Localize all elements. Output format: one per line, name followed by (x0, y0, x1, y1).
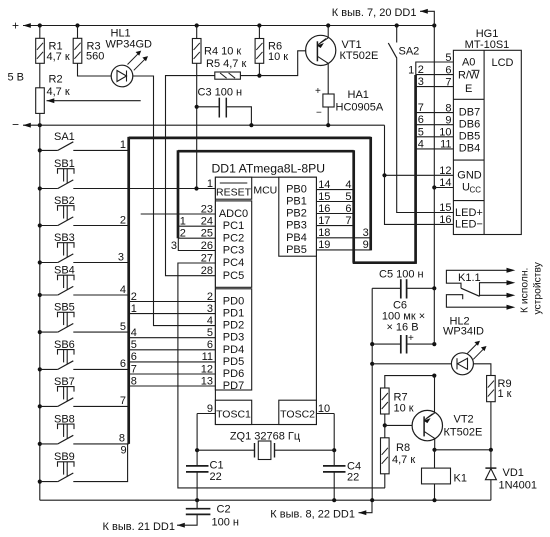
wire +5V to R6 (258, 26, 260, 39)
power rail minus (12, 118, 385, 132)
svg-text:SB1: SB1 (54, 158, 75, 170)
node R5 R6 (257, 74, 261, 78)
pin 23 (201, 203, 213, 215)
svg-text:2: 2 (418, 64, 424, 76)
svg-text:SA2: SA2 (399, 46, 420, 58)
IC DD1 PB box (279, 177, 317, 256)
bus keyboard horizontal (129, 137, 371, 140)
svg-text:1N4001: 1N4001 (499, 480, 538, 492)
IC DD1 PD box (215, 289, 251, 390)
LED HL1 (111, 51, 148, 87)
pushbutton SB3 (38, 232, 75, 265)
power rail +5V top (12, 19, 434, 33)
svg-text:4,7 к: 4,7 к (47, 86, 70, 98)
wire GND column mid (371, 344, 373, 364)
pin 1 RESET (207, 178, 213, 190)
svg-text:15: 15 (439, 202, 451, 214)
label PC2 (223, 232, 244, 244)
label PD4 (223, 344, 244, 356)
label DB6 (459, 118, 480, 130)
svg-text:ZQ1 32768 Гц: ZQ1 32768 Гц (230, 431, 301, 443)
pin 7 (445, 76, 451, 88)
label K1.1 (458, 272, 481, 284)
svg-text:PB1: PB1 (286, 196, 307, 208)
wire PB pin 19 to bus (316, 239, 370, 251)
pushbutton SB5 (38, 302, 75, 335)
wire crystal left (197, 449, 254, 451)
wire R8 top (384, 425, 386, 437)
wire +5V to R4 (196, 26, 198, 39)
label SA2 (399, 46, 420, 58)
label to actuator line2 (533, 261, 544, 314)
svg-text:+: + (315, 86, 321, 97)
label TOSC1 (216, 408, 251, 420)
wire Ucc down to C5 (433, 188, 435, 289)
wire R3 to HL1 (78, 63, 112, 76)
capacitor C2 (177, 500, 210, 527)
wire SB6 to bus (73, 358, 128, 370)
wire GND column upper (371, 288, 373, 344)
IC DD1 outline (215, 177, 316, 424)
svg-text:7: 7 (418, 102, 424, 114)
pushbutton SB7 (38, 376, 75, 409)
node HA1 minus rail (326, 123, 330, 127)
svg-text:22: 22 (210, 471, 222, 483)
pin 5 PD (207, 327, 213, 339)
pin 9 TOSC1 (197, 403, 215, 415)
node R7 Ucc (432, 374, 436, 378)
svg-text:+: + (408, 333, 414, 344)
label LEDminus (455, 219, 483, 231)
label LCD (491, 57, 513, 69)
svg-text:ADC0: ADC0 (219, 208, 248, 220)
wire bus to PD pin 2 (129, 291, 216, 303)
svg-text:SB7: SB7 (54, 376, 75, 388)
wire SB7 to bus (73, 395, 128, 407)
wire SB4 to bus (73, 284, 128, 296)
pin 28 (201, 265, 213, 277)
node C5 Ucc (432, 286, 436, 290)
crystal ZQ1 (255, 441, 275, 460)
svg-text:19: 19 (318, 239, 330, 251)
svg-text:18: 18 (318, 227, 330, 239)
svg-text:4,7 к: 4,7 к (392, 454, 415, 466)
svg-text:C1: C1 (210, 460, 224, 472)
node C4 bottom rail (332, 498, 336, 502)
svg-text:28: 28 (201, 265, 213, 277)
diode VD1 (485, 450, 496, 500)
wire bus to PD pin 6 (129, 351, 216, 363)
svg-text:SB2: SB2 (54, 195, 75, 207)
label R1 (47, 40, 70, 63)
label to pins 8,22 DD1 (270, 508, 355, 520)
svg-text:VD1: VD1 (503, 467, 524, 479)
label HG1 (465, 28, 510, 51)
svg-text:22: 22 (347, 471, 359, 483)
svg-text:PB4: PB4 (286, 232, 307, 244)
svg-text:+: + (12, 19, 19, 33)
pin 8 (445, 102, 451, 114)
display HG1 control box divider (453, 98, 484, 100)
resistor R6 (255, 39, 264, 64)
bus PC vertical (177, 150, 180, 238)
svg-text:2: 2 (131, 291, 137, 303)
pin 2 PD (207, 291, 213, 303)
svg-text:устройству: устройству (533, 261, 544, 314)
svg-text:24: 24 (201, 216, 213, 228)
svg-text:WP34ID: WP34ID (443, 326, 484, 338)
pin 26 (201, 240, 213, 252)
svg-text:MT-10S1: MT-10S1 (465, 39, 510, 51)
wire GND column lower (371, 364, 373, 500)
svg-text:2: 2 (207, 291, 213, 303)
relay contact K1.1 common (446, 268, 515, 288)
label PD2 (223, 320, 244, 332)
wire bus to PD pin 1 (129, 303, 216, 315)
wire pin 23 ADC0 (141, 213, 216, 215)
pin 27 (201, 252, 213, 264)
svg-text:К выв. 21 DD1: К выв. 21 DD1 (103, 521, 175, 533)
svg-text:6: 6 (207, 339, 213, 351)
label PC5 (223, 270, 244, 282)
wire Ucc to VT2 emitter (434, 376, 436, 412)
svg-text:SB9: SB9 (54, 451, 75, 463)
svg-text:3: 3 (171, 240, 177, 252)
label VT2 (444, 414, 483, 439)
node +5V R4 tap (195, 23, 199, 27)
node C6 left (370, 342, 374, 346)
display HG1 partition (483, 50, 485, 234)
svg-text:−: − (316, 108, 322, 119)
svg-text:K1: K1 (454, 473, 467, 485)
label C5 (379, 268, 424, 280)
wire LCD pin 9 (416, 114, 454, 126)
label DB5 (459, 131, 480, 143)
label to pin 21 DD1 (103, 521, 175, 533)
svg-text:HA1: HA1 (348, 89, 369, 101)
wire to pins 7,20 DD1 (420, 9, 434, 26)
wire TOSC1 to crystal (196, 414, 198, 451)
svg-text:R4 10 к: R4 10 к (204, 46, 241, 58)
svg-text:LCD: LCD (491, 57, 513, 69)
IC DD1 TOSC2 box (279, 400, 317, 424)
svg-text:R8: R8 (396, 442, 410, 454)
svg-text:PD1: PD1 (223, 308, 244, 320)
label PD1 (223, 308, 244, 320)
capacitor C4 (323, 450, 346, 500)
wire crystal right (275, 449, 335, 451)
bus keyboard vertical (127, 137, 130, 444)
label PB1 (286, 196, 307, 208)
label A0 (462, 57, 475, 69)
label R8 (392, 442, 415, 466)
svg-text:3: 3 (418, 76, 424, 88)
node C1 bottom rail (195, 498, 199, 502)
svg-text:9: 9 (363, 239, 369, 251)
svg-text:26: 26 (201, 240, 213, 252)
wire SB5 to bus (73, 321, 128, 333)
transistor VT2 (412, 410, 442, 440)
svg-text:КТ502Е: КТ502Е (444, 427, 483, 439)
pushbutton SB9 (38, 451, 75, 484)
capacitor C1 (186, 450, 209, 500)
resistor R9 (487, 376, 496, 402)
pin 24 (201, 216, 213, 228)
svg-text:2: 2 (180, 228, 186, 240)
LED HL2 (451, 341, 486, 375)
wire SB9 to bus (73, 444, 127, 482)
wire bus to PD pin 4 (129, 327, 216, 339)
svg-text:DB5: DB5 (459, 131, 480, 143)
wire PB pin 15 to bus (316, 191, 353, 203)
pin 16 (439, 214, 451, 226)
svg-text:4,7 к: 4,7 к (47, 51, 70, 63)
label C4 (347, 461, 361, 484)
wire bus to PD pin 7 (129, 363, 216, 375)
wire R2 to minus rail (39, 113, 41, 125)
label LED+ (455, 207, 483, 219)
label PC1 (223, 220, 244, 232)
pin 3 PD (207, 303, 213, 315)
switch SA2 (388, 26, 453, 213)
label PB2 (286, 208, 307, 220)
svg-text:5: 5 (445, 52, 451, 64)
svg-text:К выв. 7, 20 DD1: К выв. 7, 20 DD1 (332, 7, 417, 19)
svg-text:К выв. 8, 22 DD1: К выв. 8, 22 DD1 (270, 508, 355, 520)
svg-text:8: 8 (131, 375, 137, 387)
buzzer HA1 (315, 86, 334, 119)
label C6 (382, 299, 425, 333)
resistor R4 (192, 39, 201, 64)
wire bus to pin 25 (178, 228, 215, 240)
node minus rail R2 (38, 123, 42, 127)
node crystal left (195, 448, 199, 452)
wire K1 to ground (434, 484, 436, 500)
pushbutton SB6 (38, 339, 75, 372)
label HA1 (336, 89, 384, 114)
label RW (458, 70, 480, 82)
node +5V VT1 emitter tap (326, 23, 330, 27)
svg-text:25: 25 (201, 228, 213, 240)
node R7 R8 base (383, 423, 387, 427)
svg-text:DB7: DB7 (459, 106, 480, 118)
svg-text:7: 7 (131, 363, 137, 375)
svg-text:8: 8 (445, 102, 451, 114)
node GND branch (382, 173, 386, 177)
svg-text:4: 4 (207, 315, 213, 327)
svg-text:15: 15 (318, 191, 330, 203)
svg-text:5: 5 (120, 321, 126, 333)
svg-text:6: 6 (120, 358, 126, 370)
wire SB3 to bus (73, 251, 128, 263)
wire collector to R9 node (435, 449, 491, 451)
pin 10 (439, 127, 451, 139)
label DB4 (459, 143, 480, 155)
label C2 (212, 504, 239, 529)
svg-text:VT2: VT2 (454, 414, 474, 426)
node +5V R6 tap (257, 23, 261, 27)
relay contact K1.1 blade (461, 288, 480, 296)
svg-text:C2: C2 (217, 504, 231, 516)
node +5V Ucc tap (432, 23, 436, 27)
relay contact K1.1 NC (446, 295, 515, 310)
wire bottom ground rail (40, 499, 491, 501)
svg-text:R5 4,7 к: R5 4,7 к (206, 58, 246, 70)
svg-text:23: 23 (201, 203, 213, 215)
label DB7 (459, 106, 480, 118)
label VD1 (499, 467, 538, 492)
wire collector to K1 (434, 450, 436, 468)
resistor R8 (381, 438, 390, 474)
svg-text:PC1: PC1 (223, 220, 244, 232)
wire bus to PD pin 8 (129, 375, 216, 387)
bus PB left vertical (352, 150, 355, 263)
wire LCD pin 5 (408, 62, 453, 76)
wire LCD pin 7 (416, 76, 454, 88)
svg-text:12: 12 (201, 363, 213, 375)
wire LCD pin 8 (416, 102, 454, 114)
svg-text:SB5: SB5 (54, 302, 75, 314)
pushbutton SB2 (38, 195, 75, 228)
node crystal right (332, 448, 336, 452)
node R4 C3 (195, 105, 199, 109)
pin 10 TOSC2 (316, 403, 334, 415)
svg-text:13: 13 (201, 375, 213, 387)
svg-text:WP34GD: WP34GD (106, 38, 153, 50)
svg-text:R/W: R/W (458, 70, 480, 82)
wire bus to pin 26 (171, 238, 216, 252)
capacitor C5 (372, 279, 434, 298)
bus PB right vertical (369, 137, 372, 251)
wire keyboard common bus (39, 125, 41, 500)
svg-text:5: 5 (131, 339, 137, 351)
wire node to VT1 base (259, 51, 306, 76)
label C1 (210, 460, 224, 483)
svg-text:3: 3 (363, 227, 369, 239)
wire base node to VT2 (385, 424, 412, 426)
pin 4 PD (207, 315, 213, 327)
label ADC0 (219, 208, 248, 220)
bus LCD vertical (414, 75, 417, 264)
label PC3 (223, 245, 244, 257)
wire LCD pin 11 (416, 138, 454, 150)
label PB0 (286, 184, 307, 196)
svg-text:5: 5 (207, 327, 213, 339)
wire R9 to collector node (490, 402, 492, 450)
pin 13 PD (201, 375, 213, 387)
svg-text:10 к: 10 к (394, 403, 414, 415)
svg-text:1: 1 (207, 178, 213, 190)
wire SB8 to bus (73, 433, 128, 445)
pin 5 A0 (445, 52, 451, 64)
svg-text:SB4: SB4 (54, 265, 75, 277)
label TOSC2 (280, 408, 315, 420)
wire Ucc vertical (433, 26, 435, 188)
label to actuator line1 (520, 268, 531, 313)
svg-text:14: 14 (318, 179, 330, 191)
wire PB pin 14 to bus (316, 179, 353, 191)
wire R1 to R2 (39, 63, 41, 88)
svg-text:PB2: PB2 (286, 208, 307, 220)
svg-text:9: 9 (120, 444, 126, 456)
svg-text:PC4: PC4 (223, 257, 244, 269)
label R9 (498, 378, 512, 400)
pin 11 (440, 139, 451, 151)
svg-text:1: 1 (408, 64, 414, 76)
wire pin 27 to R8 (178, 263, 385, 488)
wire R7 to +5V (385, 376, 435, 388)
wire PB pin 16 to bus (316, 203, 353, 215)
wire GND to LED minus (385, 175, 454, 224)
pushbutton SB4 (38, 265, 75, 298)
svg-text:× 16 В: × 16 В (386, 322, 418, 334)
svg-text:16: 16 (439, 214, 451, 226)
pin 6 (445, 64, 451, 76)
svg-text:CC: CC (470, 186, 482, 195)
svg-text:PD4: PD4 (223, 344, 244, 356)
svg-text:SB3: SB3 (54, 232, 75, 244)
svg-text:5: 5 (345, 191, 351, 203)
wire C2 arrow (177, 524, 194, 526)
svg-text:PD3: PD3 (223, 332, 244, 344)
pushbutton SB8 (38, 413, 75, 446)
pin 9 (445, 115, 451, 127)
svg-text:1 к: 1 к (498, 388, 512, 400)
node RESET R4 (194, 186, 198, 190)
wire HL1 to PD2 (133, 76, 215, 326)
bus PC horizontal (178, 150, 354, 153)
svg-text:14: 14 (439, 177, 451, 189)
svg-text:SA1: SA1 (54, 131, 75, 143)
wire SB1 to RESET (73, 188, 215, 190)
transistor VT1 (306, 35, 336, 65)
svg-text:100 н: 100 н (212, 517, 239, 529)
node GND bottom rail (370, 498, 374, 502)
svg-text:LED+: LED+ (455, 207, 483, 219)
wire R2 wiper (47, 98, 141, 103)
display HG1 outline (453, 50, 521, 234)
resistor R7 (381, 388, 390, 414)
resistor R1 (36, 38, 45, 63)
wire LCD pin 6 (416, 64, 454, 76)
svg-text:6: 6 (131, 351, 137, 363)
svg-text:4: 4 (418, 138, 424, 150)
svg-text:27: 27 (201, 252, 213, 264)
svg-text:16: 16 (318, 203, 330, 215)
capacitor C6 (372, 333, 434, 354)
svg-text:К исполн.: К исполн. (520, 268, 531, 313)
svg-text:PD0: PD0 (223, 296, 244, 308)
svg-text:MCU: MCU (253, 184, 277, 196)
node Ucc LCD pin14 (432, 185, 436, 189)
svg-text:7: 7 (120, 395, 126, 407)
wire R8 bottom (384, 474, 386, 488)
node C3 minus rail (249, 123, 253, 127)
label R5 (206, 58, 246, 70)
svg-text:10 к: 10 к (268, 51, 288, 63)
label R6 (268, 40, 288, 63)
label MCU (253, 184, 277, 196)
resistor R5 (215, 72, 241, 79)
label PB5 (286, 244, 307, 256)
svg-text:R2: R2 (49, 73, 63, 85)
svg-text:GND: GND (457, 169, 482, 181)
node HL2 rail (370, 362, 374, 366)
label PD5 (223, 356, 244, 368)
svg-text:1: 1 (131, 303, 137, 315)
relay contact K1.1 mid (480, 293, 516, 298)
svg-text:E: E (465, 83, 472, 95)
